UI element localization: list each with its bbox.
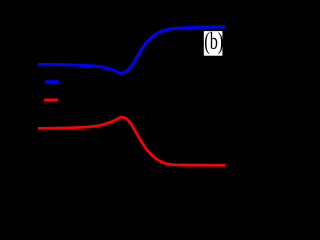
panel label (b) white box — [204, 31, 223, 56]
red curve (lower branch) — [38, 117, 225, 165]
blue curve (upper branch) — [38, 27, 225, 73]
legend blue dash key — [45, 80, 59, 83]
legend red dash key — [44, 99, 58, 102]
svg-text:(b): (b) — [204, 29, 223, 55]
